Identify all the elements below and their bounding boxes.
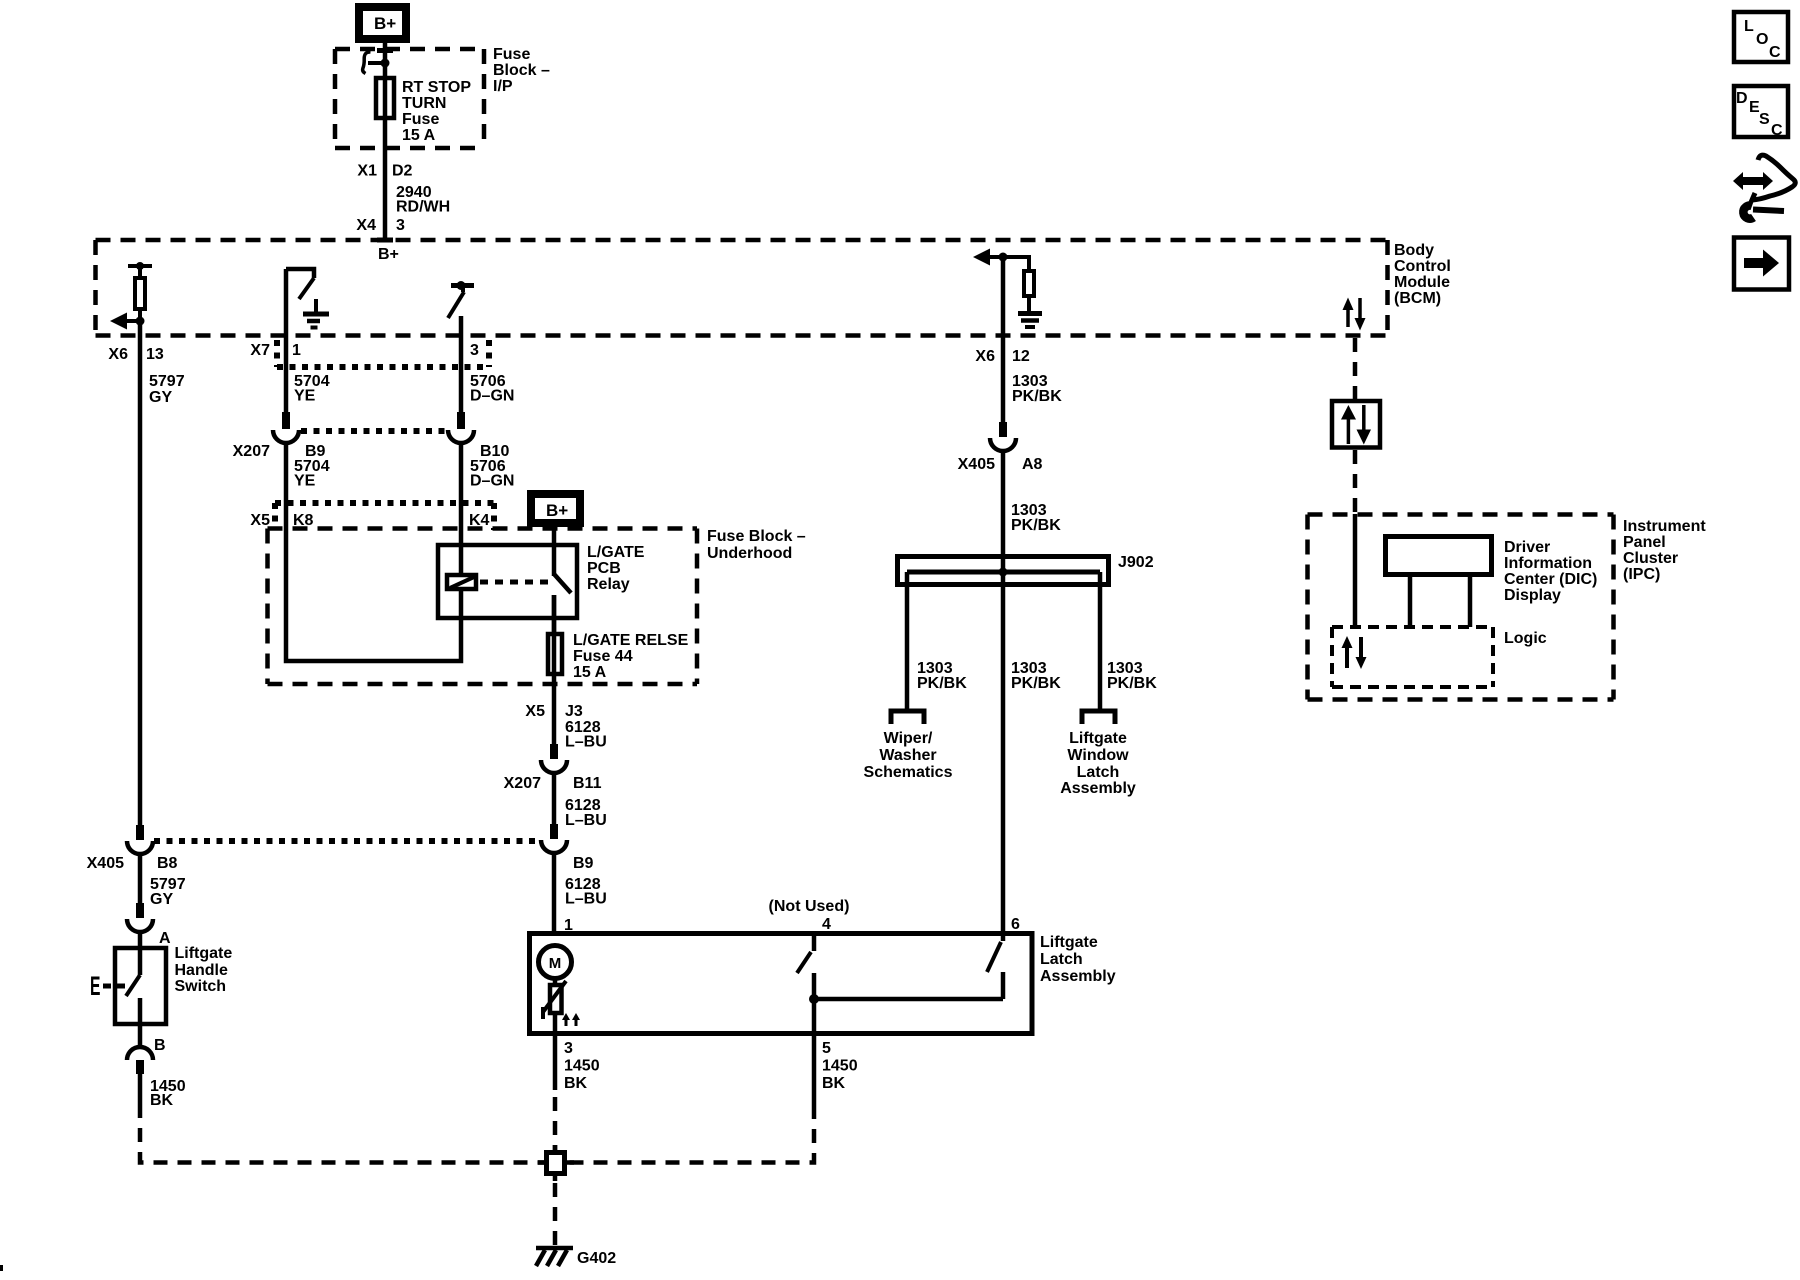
- wire into handle switch: [138, 931, 143, 975]
- dashed ground wire from pin 5: [569, 1105, 814, 1163]
- relay coil: [447, 575, 476, 589]
- connector X207 dotted tie line: [301, 428, 447, 434]
- dashed ground wire from handle switch pin B: [140, 1104, 544, 1163]
- node: fuse feed junction dot: [381, 59, 390, 68]
- svg-text:X7: X7: [250, 342, 270, 359]
- labels X405 A8: [958, 456, 1043, 473]
- svg-text:Liftgate: Liftgate: [1040, 934, 1098, 951]
- pin B stub: [136, 1060, 144, 1074]
- svg-text:RT STOP: RT STOP: [402, 79, 471, 96]
- svg-text:M: M: [549, 955, 562, 972]
- pull-up resistor branch: [1003, 257, 1029, 269]
- svg-text:1: 1: [292, 342, 301, 359]
- svg-text:L/GATE: L/GATE: [587, 544, 645, 561]
- pin B socket arc (reversed): [127, 1047, 153, 1060]
- pin label 5 with wire label 1450 BK: [822, 1040, 858, 1092]
- ground symbol (pull-up): [1018, 314, 1042, 328]
- svg-text:L/GATE RELSE: L/GATE RELSE: [573, 632, 689, 649]
- wire label 1450 BK: [150, 1078, 186, 1109]
- DIC display legs: [1410, 577, 1470, 627]
- svg-text:D2: D2: [392, 163, 413, 180]
- svg-text:X6: X6: [108, 346, 128, 363]
- connector X7 dotted outline: [277, 340, 489, 367]
- PTC diagonal tail: [541, 1007, 545, 1019]
- X405 B9 socket arc: [541, 840, 567, 853]
- SW2 stub: [461, 287, 465, 292]
- splice J902 outer shell: [898, 557, 1109, 585]
- svg-text:Cluster: Cluster: [1623, 550, 1678, 567]
- node junction dot: [999, 253, 1008, 262]
- latch switch at pin 6: stub: [1001, 933, 1006, 941]
- pin label X6 13: [108, 346, 163, 363]
- BCM right input: arrowhead into logic: [973, 249, 990, 266]
- wire label 5797 GY (lower): [150, 876, 186, 908]
- label: Wiper/Washer Schematics: [864, 730, 953, 781]
- svg-text:4: 4: [822, 916, 831, 933]
- wire to ground: [1027, 296, 1031, 312]
- svg-text:Schematics: Schematics: [864, 764, 953, 781]
- fuse: L/GATE RELSE Fuse 44 15 A: [548, 634, 562, 674]
- node dot on contact bar: [136, 262, 144, 270]
- svg-text:BK: BK: [150, 1092, 174, 1109]
- wire A8 down through J902 to latch pin 6: [1001, 450, 1006, 933]
- svg-text:5797: 5797: [149, 373, 185, 390]
- svg-text:Assembly: Assembly: [1060, 780, 1136, 797]
- SW1 blade (open): [299, 278, 314, 299]
- BCM left output driver: top contact bar: [128, 264, 152, 268]
- Body Control Module (BCM) dashed enclosure: [96, 240, 1388, 336]
- svg-text:X5: X5: [250, 512, 270, 529]
- ground G402 symbol: [536, 1248, 573, 1266]
- pin label X6 12: [975, 348, 1029, 365]
- svg-text:A: A: [159, 930, 171, 947]
- wire label 6128 L-BU: [565, 719, 607, 751]
- X207 B10 socket arc: [448, 430, 474, 443]
- svg-text:Fuse: Fuse: [402, 111, 439, 128]
- page edge artifact mark: [0, 1265, 3, 1271]
- wire label 5797 GY (upper): [149, 373, 185, 406]
- svg-text:Logic: Logic: [1504, 630, 1547, 647]
- svg-text:PCB: PCB: [587, 560, 621, 577]
- wire label 6128 L-BU: [565, 797, 607, 829]
- pin labels X5 K8 / K4: [250, 512, 489, 529]
- label: L/GATE RELSE Fuse 44 15 A: [573, 632, 689, 681]
- wire from B+ through RT STOP TURN fuse down to BCM: [383, 43, 388, 240]
- pin A socket arc: [127, 919, 153, 932]
- pin labels 4 and 6: [822, 916, 1020, 933]
- X405 A8 socket arc: [990, 438, 1016, 451]
- svg-text:Handle: Handle: [175, 962, 228, 979]
- relay actuation dashed link: [480, 580, 549, 585]
- svg-text:PK/BK: PK/BK: [1012, 388, 1062, 405]
- svg-text:Body: Body: [1394, 242, 1434, 259]
- wire label 1303 PK/BK (left branch): [917, 660, 967, 692]
- svg-text:L–BU: L–BU: [565, 812, 607, 829]
- svg-text:GY: GY: [150, 891, 173, 908]
- label: Liftgate Latch Assembly: [1040, 934, 1116, 985]
- arrows inside Logic box: [1342, 636, 1367, 669]
- power feed B+ (battery positive) box: [359, 7, 406, 39]
- connector X405 dotted tie line: [154, 838, 540, 844]
- wire SW2 down to X7 pin 3: [459, 316, 464, 412]
- labels X207 B11: [504, 775, 602, 792]
- node dot SW2: [457, 281, 466, 290]
- wire down to latch assembly pin 1: [552, 852, 557, 933]
- motor M: [539, 946, 572, 979]
- pin label 3 with wire label 1450 BK: [564, 1040, 600, 1092]
- pin 4 switch blade (open): [797, 952, 811, 973]
- svg-text:15 A: 15 A: [402, 127, 436, 144]
- svg-text:Liftgate: Liftgate: [175, 945, 233, 962]
- wire label 5704 YE (upper): [294, 373, 330, 405]
- svg-text:12: 12: [1012, 348, 1030, 365]
- svg-text:YE: YE: [294, 388, 316, 405]
- in-line connector X207 pin B9 (left): pin stub: [282, 412, 290, 429]
- in-line connector X405 pin B9: stub: [550, 824, 558, 839]
- svg-text:J902: J902: [1118, 554, 1154, 571]
- svg-text:B+: B+: [378, 246, 399, 263]
- in-line connector pin A: stub: [136, 903, 144, 918]
- wire label 1303 PK/BK (above J902): [1011, 502, 1061, 534]
- svg-text:RD/WH: RD/WH: [396, 199, 450, 216]
- svg-text:Driver: Driver: [1504, 539, 1550, 556]
- connector X5 dotted outline: [275, 503, 494, 530]
- svg-text:PK/BK: PK/BK: [1011, 675, 1061, 692]
- svg-text:L–BU: L–BU: [565, 734, 607, 751]
- label: Fuse Block - Underhood: [707, 528, 806, 562]
- svg-text:3: 3: [396, 217, 405, 234]
- svg-text:O: O: [1756, 31, 1768, 48]
- svg-text:Instrument: Instrument: [1623, 518, 1706, 535]
- PTC arrows (2 up): [562, 1013, 580, 1026]
- node: J902 junction dot: [999, 568, 1008, 577]
- SW2 blade (open): [448, 292, 464, 318]
- svg-text:B+: B+: [546, 501, 568, 520]
- svg-text:(Not Used): (Not Used): [769, 898, 850, 915]
- wire label 1303 PK/BK (middle): [1011, 660, 1061, 692]
- relay switch blade: [554, 574, 571, 593]
- svg-text:A8: A8: [1022, 456, 1043, 473]
- icon: LOC box: [1734, 12, 1788, 62]
- label: RT STOP TURN Fuse 15 A: [402, 79, 471, 144]
- dashed serial data wire BCM to IPC: [1353, 338, 1358, 399]
- svg-text:Control: Control: [1394, 258, 1451, 275]
- svg-text:3: 3: [564, 1040, 573, 1057]
- wire serial data into logic: [1353, 514, 1358, 627]
- wire from B+ to relay common: [552, 523, 557, 576]
- svg-text:6: 6: [1011, 916, 1020, 933]
- svg-text:Underhood: Underhood: [707, 545, 792, 562]
- Logic dashed box: [1332, 627, 1493, 687]
- in-line connector X207 pin B10 (right): pin stub: [457, 412, 465, 429]
- pin label X1 D2: [357, 163, 412, 180]
- svg-text:PK/BK: PK/BK: [1011, 517, 1061, 534]
- wire label 5704 YE (lower): [294, 458, 330, 490]
- wire: B10 down to relay coil high side: [459, 443, 464, 575]
- svg-text:PK/BK: PK/BK: [917, 675, 967, 692]
- pin 6 switch blade (open): [987, 942, 1001, 972]
- dashed serial data wire to IPC: [1353, 450, 1358, 514]
- Driver Information Center (DIC) Display box: [1386, 537, 1492, 575]
- BCM internal switch SW1 wire: [284, 269, 289, 412]
- svg-text:E: E: [90, 971, 100, 1002]
- svg-text:Display: Display: [1504, 587, 1561, 604]
- icon: harness routing scribble: [1733, 155, 1795, 219]
- wire: J902 left branch: [905, 572, 910, 710]
- svg-text:B8: B8: [157, 855, 178, 872]
- svg-text:G402: G402: [577, 1250, 616, 1267]
- Instrument Panel Cluster (IPC) dashed enclosure: [1308, 515, 1614, 700]
- wire: B9 down into underhood fuse block, over to relay coil low side: [286, 443, 461, 661]
- svg-text:Washer: Washer: [879, 747, 936, 764]
- BCM internal switch SW2 contact bar: [451, 283, 474, 288]
- fuse F: RT STOP TURN Fuse 15 A: [376, 78, 394, 118]
- svg-text:D–GN: D–GN: [470, 388, 514, 405]
- wire B8 to handle switch pin A: [138, 853, 143, 903]
- SW1 top hook: [286, 269, 314, 278]
- svg-text:Window: Window: [1067, 747, 1129, 764]
- svg-text:TURN: TURN: [402, 95, 446, 112]
- fuse clip terminal bar: [377, 48, 393, 53]
- svg-text:1450: 1450: [822, 1058, 858, 1075]
- labels X207 B9 B10: [233, 443, 510, 460]
- svg-text:Fuse: Fuse: [493, 46, 530, 63]
- wire label 5706 D-GN (lower): [470, 458, 514, 490]
- dashed wire from splice square to ground: [553, 1183, 558, 1245]
- wire through fuse down to X5 J3: [552, 595, 557, 744]
- labels X405 B8: [87, 855, 178, 872]
- wire: [138, 309, 142, 321]
- icon: DESC box: [1734, 86, 1788, 139]
- X207 B9 socket arc: [273, 430, 299, 443]
- svg-text:Center (DIC): Center (DIC): [1504, 571, 1597, 588]
- wire label 1303 PK/BK (right branch): [1107, 660, 1157, 692]
- BCM serial data arrows (at bottom edge): [1343, 298, 1366, 331]
- relay switch contact wire down: [552, 595, 557, 636]
- svg-text:B11: B11: [573, 775, 602, 792]
- svg-text:X1: X1: [357, 163, 377, 180]
- Liftgate Latch Assembly box: [530, 934, 1033, 1034]
- wire: J902 right branch: [1098, 572, 1103, 710]
- svg-text:3: 3: [470, 342, 479, 359]
- off-page symbol (Liftgate Window Latch): [1082, 711, 1115, 724]
- svg-text:D–GN: D–GN: [470, 473, 514, 490]
- wire label 1303 PK/BK (top): [1012, 373, 1062, 405]
- svg-text:C: C: [1769, 44, 1781, 61]
- svg-text:5: 5: [822, 1040, 831, 1057]
- node junction dot: [136, 317, 145, 326]
- label: Liftgate Window Latch Assembly: [1060, 730, 1136, 797]
- svg-text:(IPC): (IPC): [1623, 566, 1660, 583]
- label: Fuse Block - I/P: [493, 46, 550, 95]
- arrow to BCM internal logic (left): [126, 319, 140, 323]
- svg-text:B9: B9: [573, 855, 594, 872]
- svg-text:X5: X5: [525, 703, 545, 720]
- svg-text:L: L: [1744, 18, 1754, 35]
- ground symbol inside BCM (SW1): [303, 299, 329, 328]
- wire B11 to B9: [552, 772, 557, 824]
- svg-text:(BCM): (BCM): [1394, 290, 1441, 307]
- Liftgate Handle Switch box: [115, 948, 166, 1024]
- label: L/GATE PCB Relay: [587, 544, 645, 593]
- svg-text:YE: YE: [294, 473, 316, 490]
- arrows inside serial data box: [1341, 405, 1371, 445]
- off-page symbol (Wiper/Washer): [891, 711, 924, 724]
- svg-text:B+: B+: [374, 14, 396, 33]
- svg-text:X6: X6: [975, 348, 995, 365]
- resistor (driver element): [135, 278, 145, 309]
- relay coil slash: [450, 577, 474, 588]
- splice J902 internal bus bar: [907, 570, 1100, 575]
- node junction dot: [809, 994, 819, 1004]
- svg-text:Module: Module: [1394, 274, 1450, 291]
- svg-text:X4: X4: [356, 217, 376, 234]
- Fuse Block - I/P dashed enclosure: [335, 49, 484, 148]
- serial data arrow box: [1332, 401, 1380, 448]
- pin label X5 J3: [525, 703, 582, 720]
- Fuse Block - Underhood dashed enclosure: [268, 529, 698, 685]
- ground splice square: [538, 1145, 574, 1181]
- svg-text:Assembly: Assembly: [1040, 968, 1116, 985]
- dashed ground wire from pin 3 to splice square: [553, 1097, 558, 1150]
- pin 6 lower contact: [1001, 972, 1006, 999]
- svg-text:X207: X207: [504, 775, 541, 792]
- svg-text:L–BU: L–BU: [565, 891, 607, 908]
- svg-text:Panel: Panel: [1623, 534, 1666, 551]
- svg-text:J3: J3: [565, 703, 583, 720]
- svg-text:B: B: [154, 1037, 166, 1054]
- svg-text:D: D: [1736, 90, 1748, 107]
- label: Driver Information Center (DIC) Display: [1504, 539, 1597, 604]
- wire: BCM input down to X6 pin 12: [1001, 257, 1006, 422]
- svg-text:GY: GY: [149, 389, 172, 406]
- X207 B11 socket arc: [541, 760, 567, 773]
- wire to pin 5: [812, 999, 817, 1105]
- svg-text:Relay: Relay: [587, 576, 630, 593]
- svg-text:BK: BK: [822, 1075, 846, 1092]
- svg-text:BK: BK: [564, 1075, 588, 1092]
- svg-text:Wiper/: Wiper/: [884, 730, 933, 747]
- wire label 2940 RD/WH: [396, 184, 450, 216]
- svg-text:PK/BK: PK/BK: [1107, 675, 1157, 692]
- wire label 5706 D-GN (upper): [470, 373, 514, 405]
- svg-text:Block –: Block –: [493, 62, 550, 79]
- thermal protector (PTC): [550, 985, 562, 1013]
- fuse clip curl symbol: [368, 61, 385, 65]
- pin labels X7 1 / 3: [250, 342, 479, 359]
- in-line connector X405 pin A8: stub: [999, 422, 1007, 437]
- PTC diagonal: [543, 981, 566, 1012]
- relay U: L/GATE PCB Relay box: [438, 545, 577, 618]
- svg-text:Latch: Latch: [1040, 951, 1083, 968]
- resistor: [1024, 271, 1034, 296]
- svg-text:Information: Information: [1504, 555, 1592, 572]
- wire: BCM output down to X6 pin 13: [138, 321, 143, 825]
- svg-text:Latch: Latch: [1077, 764, 1120, 781]
- wire label 6128 L-BU: [565, 876, 607, 908]
- X405 B8 socket arc: [127, 841, 153, 854]
- in-line connector X405 pin B8: stub: [136, 825, 144, 840]
- icon: right arrow box: [1734, 238, 1789, 290]
- svg-text:1450: 1450: [564, 1058, 600, 1075]
- svg-text:Fuse Block –: Fuse Block –: [707, 528, 806, 545]
- wire thermistor to pin 3: [553, 1013, 558, 1090]
- in-line connector X207 pin B11: stub: [550, 744, 558, 759]
- svg-text:X207: X207: [233, 443, 270, 460]
- label: Instrument Panel Cluster (IPC): [1623, 518, 1706, 583]
- wire joining switch contacts: [814, 997, 1003, 1002]
- svg-text:X405: X405: [87, 855, 124, 872]
- svg-text:Switch: Switch: [175, 978, 227, 995]
- handle switch lower contact wire: [138, 998, 143, 1048]
- node E label: [90, 971, 100, 1002]
- handle switch blade (open): [126, 975, 140, 996]
- pin label X4 3: [356, 217, 405, 234]
- svg-text:C: C: [1771, 122, 1783, 139]
- wire below pin B: [138, 1074, 143, 1104]
- svg-text:X405: X405: [958, 456, 995, 473]
- label: Body Control Module (BCM): [1394, 242, 1451, 307]
- pin 4 lower contact: [812, 973, 817, 999]
- wire: [138, 266, 142, 278]
- svg-text:Fuse 44: Fuse 44: [573, 648, 633, 665]
- label: Liftgate Handle Switch: [175, 945, 233, 995]
- svg-text:S: S: [1759, 111, 1770, 128]
- svg-text:Liftgate: Liftgate: [1069, 730, 1127, 747]
- power feed B+ box (relay feed): [531, 494, 580, 523]
- svg-text:15 A: 15 A: [573, 664, 607, 681]
- svg-text:13: 13: [146, 346, 164, 363]
- svg-text:I/P: I/P: [493, 78, 513, 95]
- wire motor to thermistor: [553, 978, 558, 986]
- E actuation dashed link: [103, 984, 127, 989]
- latch switch at pin 4: stub: [812, 933, 817, 951]
